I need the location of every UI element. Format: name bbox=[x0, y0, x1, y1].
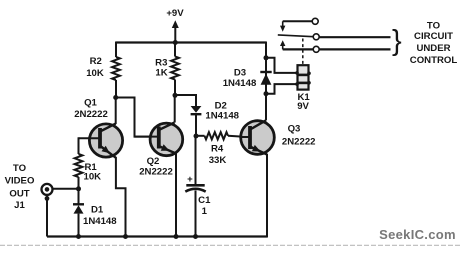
transistor Q1 2N2222 base lead bbox=[79, 137, 101, 139]
transistor Q1 2N2222 emitter lead with arrow bbox=[101, 147, 116, 158]
node relay coil bottom bbox=[264, 91, 269, 96]
wire common to circuit under control bbox=[319, 36, 390, 38]
wire rail to R3 bbox=[174, 43, 176, 57]
relay actuation dashed link bbox=[302, 39, 304, 65]
transistor Q2 2N2222 base bar bbox=[157, 127, 161, 149]
ground return rail bbox=[47, 235, 267, 237]
transistor Q1 2N2222 base bar bbox=[98, 128, 102, 149]
wire Q2 emitter to ground rail bbox=[175, 153, 177, 237]
wire R4 to Q3 base bbox=[228, 136, 248, 137]
svg-text:D3: D3 bbox=[234, 67, 246, 78]
svg-text:1N4148: 1N4148 bbox=[205, 111, 239, 122]
transistor Q2 2N2222 collector lead bbox=[160, 123, 175, 130]
svg-text:R4: R4 bbox=[211, 144, 224, 155]
svg-text:9V: 9V bbox=[297, 101, 309, 112]
node R3 / D2 junction bbox=[173, 93, 178, 98]
transistor Q3 2N2222 emitter lead with arrow bbox=[251, 147, 267, 155]
svg-text:TO: TO bbox=[427, 20, 441, 31]
svg-text:UNDER: UNDER bbox=[416, 43, 450, 54]
bottom gray rule bbox=[0, 244, 460, 246]
node Q1 collector junction bbox=[113, 95, 118, 100]
node J1 / R1 / D1 junction bbox=[76, 186, 81, 191]
svg-text:C1: C1 bbox=[198, 195, 211, 206]
wire Q1 collector bbox=[115, 98, 117, 125]
node Q1 emitter / rail bbox=[123, 234, 128, 239]
NC throw arrow bbox=[282, 21, 284, 26]
svg-text:SeekIC.com: SeekIC.com bbox=[379, 227, 456, 242]
resistor R4 bbox=[205, 132, 229, 139]
wire coil top bbox=[266, 58, 297, 73]
transistor Q3 2N2222 collector lead bbox=[251, 120, 266, 129]
node C1 / rail bbox=[193, 234, 198, 239]
connector J1 (RCA jack) bbox=[42, 184, 53, 195]
resistor R2 bbox=[112, 57, 120, 80]
node D1 / ground rail bbox=[76, 234, 81, 239]
svg-text:D1: D1 bbox=[91, 205, 104, 216]
NO throw arrow bbox=[280, 40, 285, 46]
+9V power rail bbox=[116, 41, 266, 43]
wire J1 to node bbox=[52, 188, 79, 190]
svg-text:OUT: OUT bbox=[9, 189, 29, 200]
wire node to D1 bbox=[78, 189, 80, 204]
svg-text:1N4148: 1N4148 bbox=[83, 216, 117, 227]
svg-text:33K: 33K bbox=[209, 155, 227, 166]
svg-text:2N2222: 2N2222 bbox=[74, 109, 108, 120]
node D2 / R4 / C1 junction bbox=[194, 134, 199, 139]
relay switch blade bbox=[278, 35, 314, 37]
svg-text:VIDEO: VIDEO bbox=[5, 176, 35, 187]
wire NO contact to circuit under control bbox=[283, 48, 391, 50]
transistor Q2 2N2222 base lead bbox=[135, 136, 159, 138]
transistor Q2 2N2222 emitter lead with arrow bbox=[160, 147, 176, 154]
wire rail to R2 bbox=[115, 42, 117, 58]
+9V supply arrow bbox=[174, 27, 176, 43]
diode D1 1N4148 bbox=[73, 203, 84, 205]
node: +9V rail / R3 junction bbox=[173, 40, 178, 45]
transistor Q3 2N2222 base lead bbox=[241, 136, 251, 138]
svg-text:1: 1 bbox=[202, 206, 208, 217]
wire R1 to J1 node bbox=[78, 177, 80, 189]
svg-text:CIRCUIT: CIRCUIT bbox=[414, 31, 453, 42]
transistor Q3 2N2222 base bar bbox=[248, 126, 252, 149]
wire Q1 collector node to Q2 base bbox=[116, 98, 156, 137]
svg-text:J1: J1 bbox=[14, 200, 25, 211]
wire Q1 base to R1 bbox=[78, 137, 80, 154]
transistor Q3 2N2222 body bbox=[241, 121, 275, 155]
svg-text:1K: 1K bbox=[155, 68, 167, 79]
relay contact NC terminal bbox=[283, 20, 312, 22]
svg-text:10K: 10K bbox=[86, 68, 104, 79]
wire node to D2 bbox=[175, 95, 196, 106]
relay contact NO terminal bbox=[313, 46, 319, 52]
wire node to R4 bbox=[196, 135, 205, 137]
wire J1 shell to ground rail bbox=[46, 195, 48, 237]
wire R2 to Q1 collector node bbox=[115, 80, 117, 98]
node J1 shell bbox=[45, 196, 50, 201]
resistor R1 bbox=[75, 154, 83, 177]
svg-text:10K: 10K bbox=[84, 172, 102, 183]
transistor Q1 2N2222 collector lead bbox=[101, 124, 116, 131]
svg-text:+9V: +9V bbox=[166, 8, 184, 19]
svg-text:Q1: Q1 bbox=[84, 98, 97, 109]
transistor Q1 2N2222 body bbox=[89, 124, 122, 157]
svg-text:}: } bbox=[392, 25, 402, 57]
diode D3 1N4148 bbox=[260, 71, 271, 73]
node Q2 emitter / rail bbox=[174, 234, 179, 239]
svg-text:2N2222: 2N2222 bbox=[139, 167, 173, 178]
svg-text:R2: R2 bbox=[90, 56, 102, 67]
svg-text:+: + bbox=[187, 174, 193, 185]
svg-text:TO: TO bbox=[13, 163, 27, 174]
capacitor C1 (polarized) bbox=[186, 184, 204, 187]
svg-text:1N4148: 1N4148 bbox=[223, 78, 257, 89]
wire node to C1 bbox=[195, 136, 197, 184]
transistor Q2 2N2222 body bbox=[150, 123, 183, 156]
node relay coil top bbox=[264, 55, 269, 60]
relay K1 coil bbox=[298, 65, 309, 89]
relay common terminal bbox=[313, 34, 319, 40]
wire Q1 emitter to ground rail bbox=[116, 157, 126, 237]
svg-text:Q3: Q3 bbox=[288, 124, 301, 135]
wire R3 to Q2 collector bbox=[174, 80, 176, 96]
wire rail to Q3 collector bbox=[265, 42, 267, 121]
wire Q3 emitter to ground rail bbox=[266, 154, 268, 238]
wire coil bottom bbox=[266, 84, 297, 94]
diode D2 1N4148 bbox=[191, 106, 202, 113]
svg-text:CONTROL: CONTROL bbox=[410, 55, 458, 66]
svg-text:2N2222: 2N2222 bbox=[282, 136, 316, 147]
resistor R3 bbox=[171, 57, 179, 80]
